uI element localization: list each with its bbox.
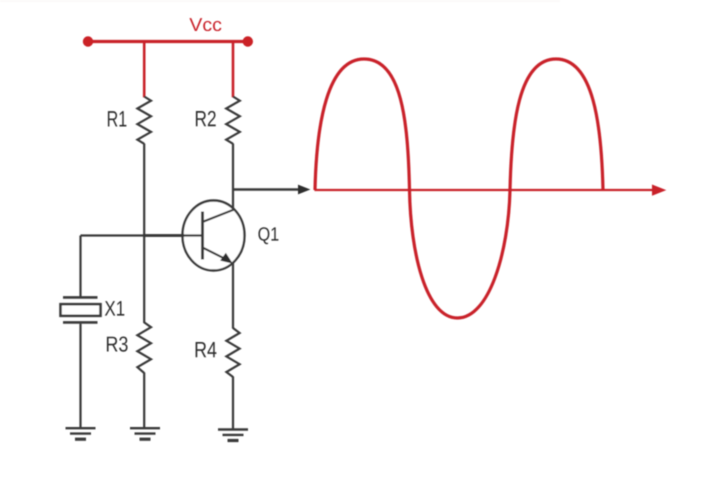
- sine wave: [315, 59, 603, 318]
- resistor R3: [137, 322, 151, 373]
- crystal X1 body: [61, 304, 101, 316]
- transistor Q1 base bar: [201, 212, 204, 260]
- wire R3 to ground: [143, 373, 145, 428]
- label R3: [107, 336, 128, 351]
- Vcc rail right terminal dot: [243, 36, 253, 46]
- top edge artifact strip: [0, 0, 560, 2]
- output axis arrowhead (red): [652, 185, 666, 196]
- label Q1: [258, 227, 278, 244]
- wire base emphasis segment: [143, 234, 184, 237]
- crystal X1 top plate: [63, 296, 98, 299]
- crystal X1 bottom plate: [63, 321, 98, 324]
- wire crystal to ground: [79, 324, 81, 428]
- output arrowhead (black): [298, 185, 310, 195]
- label R4: [196, 342, 217, 357]
- ground under R3: [130, 428, 160, 439]
- wire R4 to ground: [232, 377, 234, 429]
- transistor Q1 emitter stroke: [203, 248, 229, 261]
- wire Vcc to R2 (red): [232, 42, 235, 98]
- label Vcc: [189, 18, 221, 31]
- Vcc rail: [88, 40, 248, 43]
- wire left branch down to crystal: [79, 236, 81, 297]
- ground under crystal: [66, 428, 96, 439]
- wire Vcc to R1 (red): [143, 42, 146, 98]
- wire R1 bottom through base junction to R3: [143, 144, 145, 324]
- label X1: [105, 301, 125, 315]
- label R1: [108, 111, 127, 126]
- wire emitter down to R4: [232, 262, 234, 329]
- transistor Q1 collector stroke: [203, 209, 235, 221]
- resistor R1: [137, 97, 151, 144]
- wire base (transistor to left branch): [81, 234, 203, 236]
- resistor R4: [226, 328, 239, 377]
- resistor R2: [226, 97, 240, 144]
- transistor Q1 emitter arrowhead: [220, 253, 233, 264]
- label R2: [196, 111, 216, 126]
- wire output (collector junction to arrow): [233, 188, 299, 190]
- ground under R4: [218, 430, 248, 441]
- transistor Q1 body circle: [183, 201, 245, 271]
- wire R2 bottom to collector: [232, 144, 234, 211]
- Vcc rail left terminal dot: [83, 36, 93, 46]
- output axis line (red): [315, 189, 659, 191]
